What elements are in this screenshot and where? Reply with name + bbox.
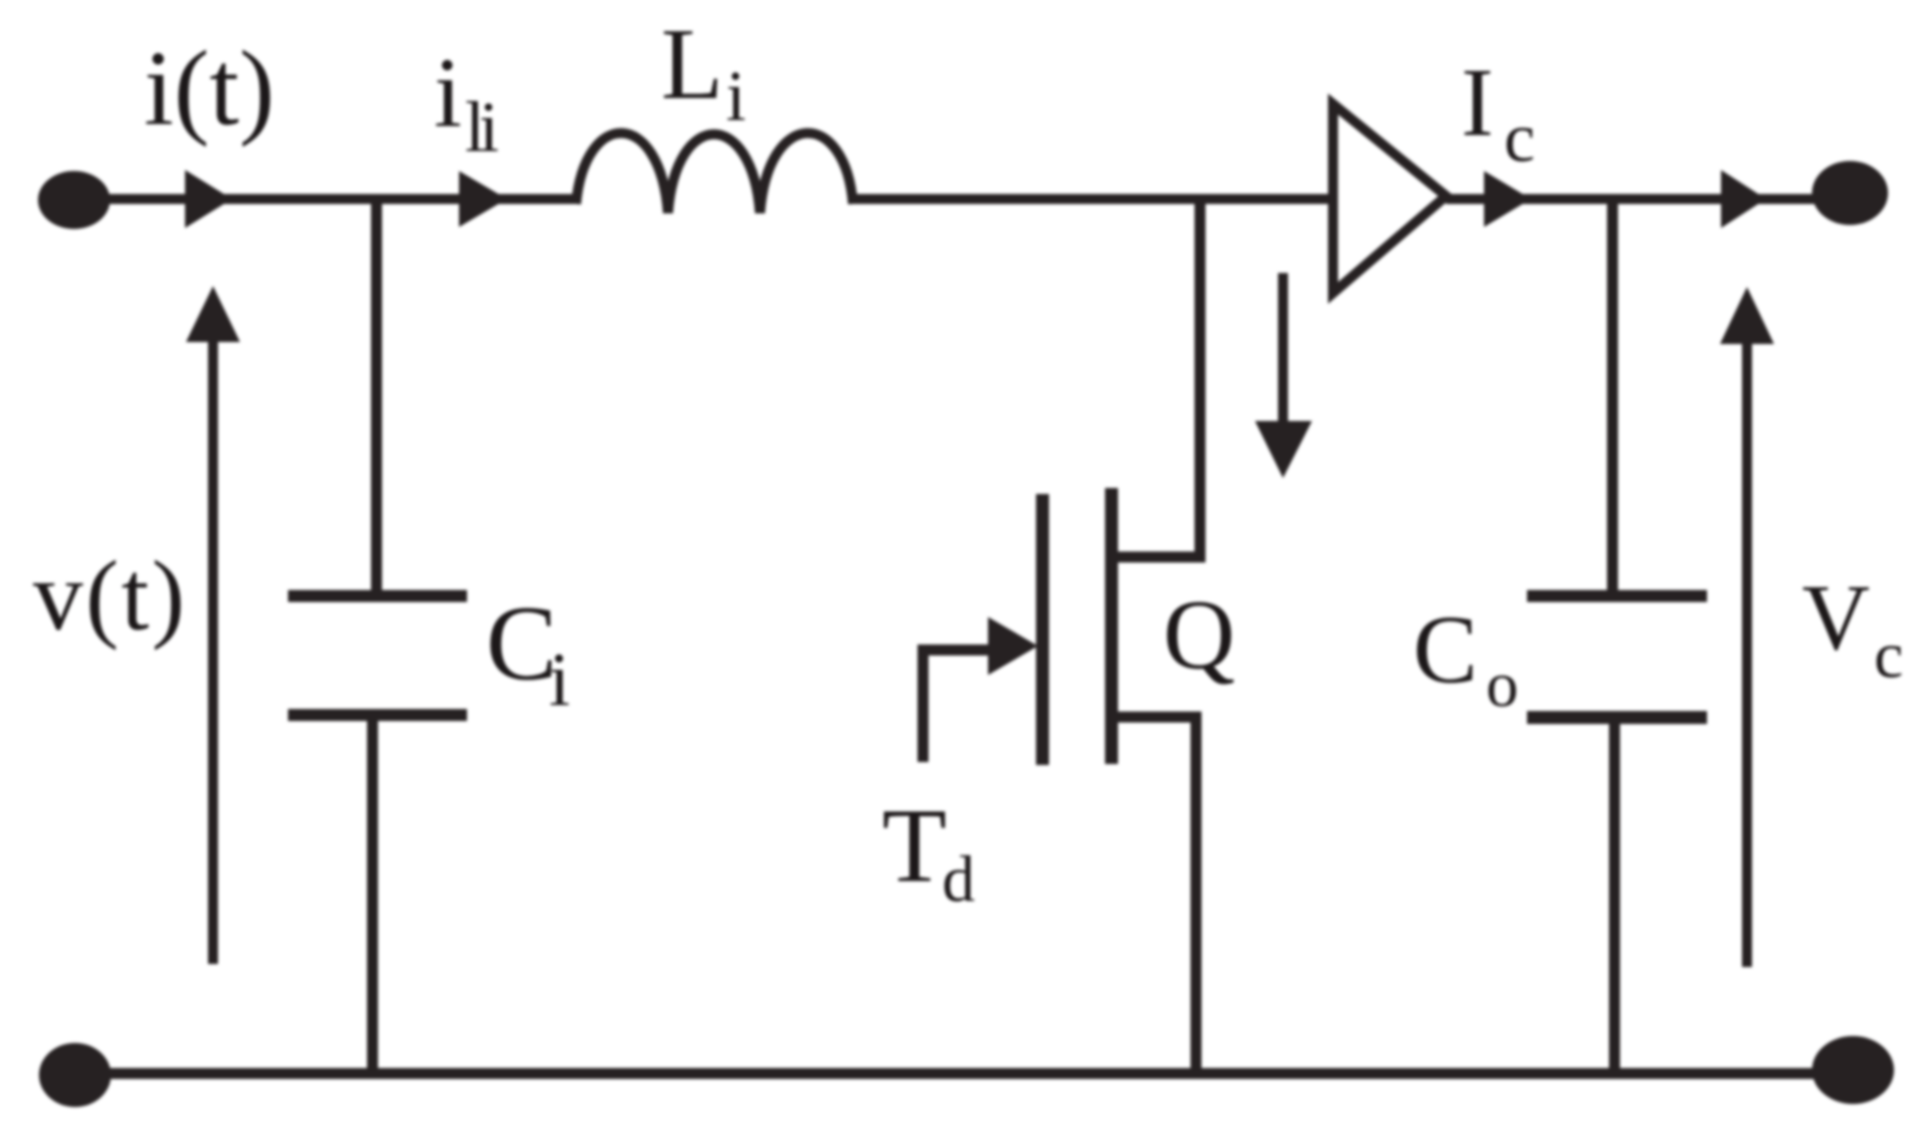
wire top left segment bbox=[74, 194, 576, 204]
svg-text:i: i bbox=[726, 56, 746, 136]
wire arrowhead i(t) bbox=[185, 170, 232, 228]
inductor Li bbox=[576, 133, 853, 213]
svg-text:i(t): i(t) bbox=[144, 30, 275, 148]
svg-text:Q: Q bbox=[1163, 579, 1235, 690]
transistor Q drain lead bbox=[1111, 199, 1200, 557]
svg-text:T: T bbox=[882, 787, 947, 904]
wire node B down to Co bbox=[1607, 199, 1618, 591]
svg-text:d: d bbox=[942, 843, 975, 916]
svg-text:c: c bbox=[1504, 100, 1535, 177]
arrow Vc bbox=[1742, 338, 1752, 967]
transistor Q channel bar bbox=[1105, 488, 1118, 764]
diode D1 triangle bbox=[1333, 104, 1446, 293]
wire node A down to Ci bbox=[371, 199, 382, 591]
node terminal left-bottom bbox=[39, 1043, 111, 1107]
wire arrowhead output bbox=[1721, 170, 1766, 228]
node output terminal right-top bbox=[1812, 161, 1888, 225]
svg-text:i: i bbox=[434, 37, 462, 148]
wire arrowhead Ic bbox=[1484, 171, 1531, 227]
wire Co to bottom rail bbox=[1609, 724, 1620, 1071]
svg-text:I: I bbox=[1461, 49, 1494, 157]
node input terminal left-top bbox=[38, 171, 110, 229]
svg-text:C: C bbox=[486, 585, 557, 703]
transistor Q gate arrowhead bbox=[988, 617, 1038, 675]
wire bottom rail bbox=[74, 1068, 1853, 1079]
capacitor Ci top plate bbox=[288, 590, 467, 602]
node terminal right-bottom bbox=[1812, 1036, 1894, 1104]
svg-text:o: o bbox=[1486, 649, 1519, 721]
svg-text:li: li bbox=[465, 87, 498, 167]
svg-text:i: i bbox=[549, 638, 570, 722]
wire top middle segment bbox=[853, 194, 1333, 204]
capacitor Co bottom plate bbox=[1527, 711, 1707, 724]
svg-text:c: c bbox=[1874, 619, 1903, 692]
svg-text:L: L bbox=[661, 8, 723, 121]
wire arrowhead ili bbox=[459, 171, 507, 227]
svg-text:V: V bbox=[1802, 566, 1870, 670]
arrow transistor current down bbox=[1278, 273, 1288, 432]
transistor Q gate bar bbox=[1036, 494, 1049, 765]
capacitor Co top plate bbox=[1527, 590, 1707, 602]
svg-text:v(t): v(t) bbox=[33, 540, 187, 651]
svg-text:C: C bbox=[1413, 596, 1478, 703]
transistor Q gate lead Td bbox=[923, 650, 995, 762]
transistor Q source lead bbox=[1111, 717, 1196, 1071]
capacitor Ci bottom plate bbox=[288, 709, 467, 721]
wire top right segment bbox=[1446, 194, 1816, 204]
wire Ci to bottom rail bbox=[367, 721, 378, 1071]
arrow v(t) bbox=[208, 336, 218, 964]
